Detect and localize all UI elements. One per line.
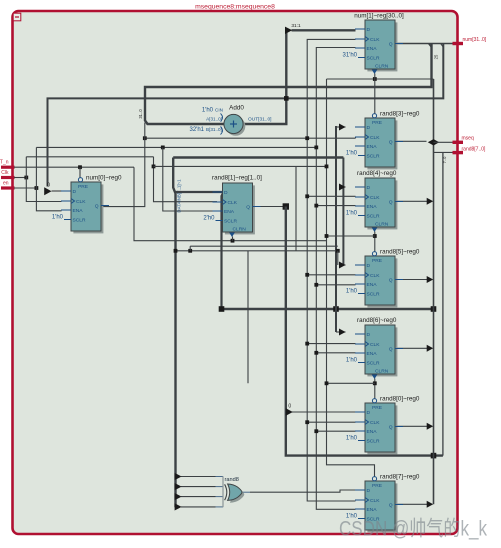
svg-text:D: D	[367, 125, 371, 131]
wire RST_n branch down to rand8[1] CLRN line	[134, 167, 327, 241]
svg-text:D: D	[367, 263, 371, 269]
XOR input collector bracket	[222, 476, 224, 507]
wire rand8[7].Q	[395, 503, 429, 505]
svg-text:1'h0: 1'h0	[346, 289, 358, 295]
svg-text:CLK: CLK	[370, 420, 380, 426]
tap slants on num Q line	[429, 44, 432, 48]
svg-text:D: D	[367, 488, 371, 494]
square junction on OUT riser at y=98.4	[284, 96, 289, 101]
svg-text:A[31..0]: A[31..0]	[206, 116, 222, 121]
svg-text:CLK: CLK	[370, 195, 380, 201]
svg-text:ENA: ENA	[367, 351, 378, 357]
svg-text:PRE: PRE	[372, 483, 383, 489]
input port en	[1, 181, 15, 190]
vertical x=296	[295, 166, 297, 250]
svg-text:ENA: ENA	[73, 208, 84, 214]
svg-text:mseq: mseq	[462, 136, 474, 142]
svg-text:D: D	[73, 189, 77, 195]
svg-text:7..0: 7..0	[442, 156, 447, 163]
wire en run from en riser	[36, 146, 316, 148]
svg-text:Clk: Clk	[1, 170, 9, 176]
svg-text:CLK: CLK	[370, 498, 380, 504]
svg-text:Q: Q	[95, 204, 99, 210]
wire mid run y=166.4 to rst trunk	[154, 165, 327, 167]
diamond junction mseq	[428, 139, 439, 145]
wire num bus tap from Q to Add0 A	[145, 44, 432, 124]
svg-text:CLK: CLK	[228, 200, 238, 206]
svg-text:num[31..0]: num[31..0]	[463, 37, 487, 43]
wire rst top run y=79	[327, 78, 434, 80]
collapse minus box	[13, 13, 21, 21]
wire num[0].PRE drop	[79, 167, 81, 181]
svg-text:D: D	[367, 410, 371, 416]
bus rand8 collect x=433.5	[433, 79, 435, 504]
svg-text:rand8: rand8	[225, 477, 239, 483]
svg-text:Add0: Add0	[229, 105, 244, 112]
arrow into rand8[3].D	[336, 126, 346, 128]
svg-text:1'h0: 1'h0	[202, 108, 214, 114]
svg-text:Q: Q	[389, 278, 393, 284]
svg-text:PRE: PRE	[372, 405, 383, 411]
wire rst branch y=383.3	[327, 382, 375, 384]
bus bracket left of rand8[1].D down to slice y=309	[222, 192, 224, 309]
svg-text:D: D	[224, 190, 228, 196]
wire clk branch rand8[4]	[307, 195, 355, 197]
wire rst branch y=236	[327, 235, 375, 237]
svg-text:CLK: CLK	[370, 273, 380, 279]
svg-text:Q: Q	[246, 205, 250, 211]
svg-text:ENA: ENA	[367, 282, 378, 288]
wire en from pin	[14, 187, 36, 189]
wire clk branch rand8[0]	[307, 421, 355, 423]
svg-text:Q: Q	[389, 200, 393, 206]
vertical x=337.8 joining trunkB arrow level	[337, 251, 339, 265]
wire thin tap from Q line down-left to num[0].D riser	[48, 44, 444, 187]
wire en branch rand8[0]	[316, 430, 355, 432]
svg-text:31'h0: 31'h0	[343, 53, 358, 59]
chain rand8[4].CLRN to rand8[5].PRE	[374, 232, 376, 253]
svg-text:D: D	[367, 185, 371, 191]
wire en down to num[0].ENA	[36, 188, 61, 211]
svg-text:ENA: ENA	[367, 144, 378, 150]
svg-text:RST_n: RST_n	[0, 160, 9, 166]
wire rand8[1].CLRN drop	[232, 237, 234, 241]
svg-text:1'h0: 1'h0	[346, 211, 358, 217]
svg-text:1'h0: 1'h0	[346, 436, 358, 442]
wire rst trunk	[327, 79, 375, 479]
svg-text:1'h0: 1'h0	[52, 215, 64, 221]
svg-text:CLRN: CLRN	[375, 64, 389, 70]
wire rand8[3].Q	[395, 140, 427, 142]
vertical x=442.9 from port slice down to 455.6	[442, 152, 444, 455]
output port rand8[7..0]	[453, 147, 487, 155]
svg-text:0: 0	[288, 404, 291, 410]
svg-text:Q: Q	[389, 42, 393, 48]
svg-text:ENA: ENA	[224, 209, 235, 215]
svg-text:1'h0: 1'h0	[346, 151, 358, 157]
wire rand8[6].Q	[395, 347, 429, 349]
svg-text:msequence8:msequence8: msequence8:msequence8	[195, 4, 275, 11]
svg-text:SCLR: SCLR	[73, 218, 87, 224]
output port num[31..0]	[453, 37, 487, 45]
arrow into rand8[6].D	[336, 331, 346, 333]
svg-text:rand8[3]~reg0: rand8[3]~reg0	[380, 111, 420, 118]
wire clk drop to rand8[1].CLK	[154, 157, 218, 202]
wire rand8[4].Q	[395, 200, 429, 202]
svg-text:PRE: PRE	[372, 258, 383, 264]
arrow into num[1].D with slice label 31:1	[285, 27, 292, 34]
svg-text:SCLR: SCLR	[367, 361, 381, 367]
svg-text:ENA: ENA	[367, 204, 378, 210]
svg-text:num[0]~reg0: num[0]~reg0	[86, 175, 122, 182]
wire rand8[1].D thick	[176, 191, 223, 193]
flip-flop num[1]~reg[30..0]	[343, 13, 405, 75]
wire RST_n from pin	[14, 166, 134, 168]
wire mid y=246.2	[190, 245, 338, 247]
wire rand8[5].Q	[395, 279, 429, 281]
xor gate rand8	[225, 477, 245, 503]
svg-text:Q: Q	[389, 347, 393, 353]
svg-text:CLK: CLK	[76, 199, 86, 205]
wire clk branch rand8[3]	[145, 137, 356, 139]
svg-text:CSDN @帅气的k_k: CSDN @帅气的k_k	[339, 518, 487, 541]
wire en branch rand8[6]	[316, 352, 355, 354]
flip-flop rand8[3]~reg0	[346, 111, 420, 170]
svg-text:CLRN: CLRN	[233, 227, 247, 233]
bus vertical with jog feeding rand8[1].D and XOR taps	[173, 158, 175, 508]
XOR tap arrows and wires	[181, 476, 216, 478]
svg-text:SCLR: SCLR	[367, 214, 381, 220]
wire clk branch rand8[6]	[307, 343, 355, 345]
wire num[1].Q to output port	[395, 43, 453, 45]
svg-text:rand8[4]~reg0: rand8[4]~reg0	[357, 170, 397, 177]
svg-text:31:1: 31:1	[291, 23, 301, 29]
arrow into rand8[5].D	[343, 264, 345, 266]
flip-flop rand8[6]~reg0	[346, 317, 403, 379]
flip-flop num[0]~reg0	[52, 175, 122, 234]
wire Clk from pin	[14, 177, 26, 179]
svg-text:CLRN: CLRN	[375, 222, 389, 228]
flip-flop rand8[0]~reg0	[346, 396, 420, 455]
svg-text:CLK: CLK	[370, 342, 380, 348]
wire XOR output to rand8[7].D	[242, 491, 250, 493]
svg-text:ENA: ENA	[367, 46, 378, 52]
wire clk trunk	[307, 39, 355, 501]
wire rand8[0].Q	[395, 425, 429, 427]
svg-text:Q: Q	[389, 425, 393, 431]
wire num[0].Q riser joins A bus bend	[102, 123, 145, 207]
svg-text:rand8[6]~reg0: rand8[6]~reg0	[357, 317, 397, 324]
svg-text:ENA: ENA	[367, 429, 378, 435]
svg-text:Q: Q	[389, 140, 393, 146]
svg-text:rand8[7]~reg0: rand8[7]~reg0	[380, 474, 420, 481]
svg-text:en: en	[3, 181, 9, 187]
svg-text:DATAINB[7..1]~1: DATAINB[7..1]~1	[177, 179, 182, 213]
svg-text:SCLR: SCLR	[224, 219, 238, 225]
svg-text:SCLR: SCLR	[367, 292, 381, 298]
svg-text:2'h0: 2'h0	[203, 216, 215, 222]
flip-flop rand8[5]~reg0	[346, 249, 420, 308]
svg-text:SCLR: SCLR	[367, 439, 381, 445]
svg-text:PRE: PRE	[78, 184, 89, 190]
svg-text:PRE: PRE	[372, 120, 383, 126]
svg-text:D: D	[367, 27, 371, 33]
wire clk branch rand8[5]	[307, 274, 355, 276]
arrow 0 into rand8[0].D	[292, 411, 356, 413]
flip-flop rand8[7]~reg0	[346, 474, 420, 533]
bus trunk B x=343.4	[342, 158, 344, 266]
svg-text:SCLR: SCLR	[367, 56, 381, 62]
svg-text:OUT[31..0]: OUT[31..0]	[248, 116, 271, 122]
svg-text:0: 0	[47, 183, 50, 189]
wire en trunk	[316, 48, 355, 510]
svg-text:25: 25	[434, 54, 439, 59]
chain rand8[6].CLRN to rand8[0].PRE	[374, 379, 376, 400]
bus DATAINB thick run y=157.5	[173, 156, 343, 158]
wire num[1].CLRN chain to rand8[3].PRE	[374, 74, 376, 118]
svg-text:D: D	[367, 332, 371, 338]
svg-text:rand8[1]~reg[1..0]: rand8[1]~reg[1..0]	[212, 175, 262, 182]
svg-text:rand8[7..0]: rand8[7..0]	[462, 147, 487, 153]
svg-text:SCLR: SCLR	[367, 154, 381, 160]
svg-text:num[1]~reg[30..0]: num[1]~reg[30..0]	[354, 13, 404, 20]
thick feedback x=285.8 down to y=455.6	[286, 207, 443, 456]
svg-text:CLK: CLK	[370, 37, 380, 43]
wire rand8[1].Q to bus junction	[253, 206, 286, 208]
svg-text:B[31..0]: B[31..0]	[206, 127, 222, 132]
wire en branch rand8[4]	[316, 205, 355, 207]
wire en branch rand8[5]	[316, 284, 355, 286]
wire clk upper run	[26, 156, 153, 158]
svg-text:ENA: ENA	[367, 507, 378, 513]
flip-flop rand8[4]~reg0	[346, 170, 403, 232]
input port Clk	[1, 170, 15, 179]
bus slice run y=309	[222, 308, 434, 310]
svg-text:CLRN: CLRN	[375, 369, 389, 375]
vertical x=248	[247, 251, 249, 383]
svg-text:rand8[5]~reg0: rand8[5]~reg0	[380, 249, 420, 256]
svg-text:Q: Q	[389, 503, 393, 509]
svg-text:1'h0: 1'h0	[346, 358, 358, 364]
wire to mseq port	[434, 141, 453, 143]
wire en drop to rand8[1].ENA	[163, 147, 213, 211]
svg-text:31..0: 31..0	[138, 109, 143, 119]
wire Add0 OUT up to num[1].D	[243, 30, 286, 124]
adder Add0	[190, 105, 272, 136]
svg-text:rand8[0]~reg0: rand8[0]~reg0	[380, 396, 420, 403]
arrow into rand8[4].D	[343, 186, 345, 188]
input port RST_n	[0, 160, 15, 169]
svg-text:32'h1: 32'h1	[190, 127, 205, 133]
svg-text:CIN: CIN	[215, 108, 223, 113]
svg-text:CLK: CLK	[370, 135, 380, 141]
wire mid y=250.8	[176, 250, 338, 252]
wire to rand8[7..0] port	[434, 151, 453, 153]
flip-flop rand8[1]~reg[1..0]	[203, 175, 262, 238]
output port mseq	[453, 136, 474, 145]
constant arrow 0 into num[0].D	[44, 187, 51, 195]
bus trunk A (D arrows) x=336	[335, 126, 337, 332]
